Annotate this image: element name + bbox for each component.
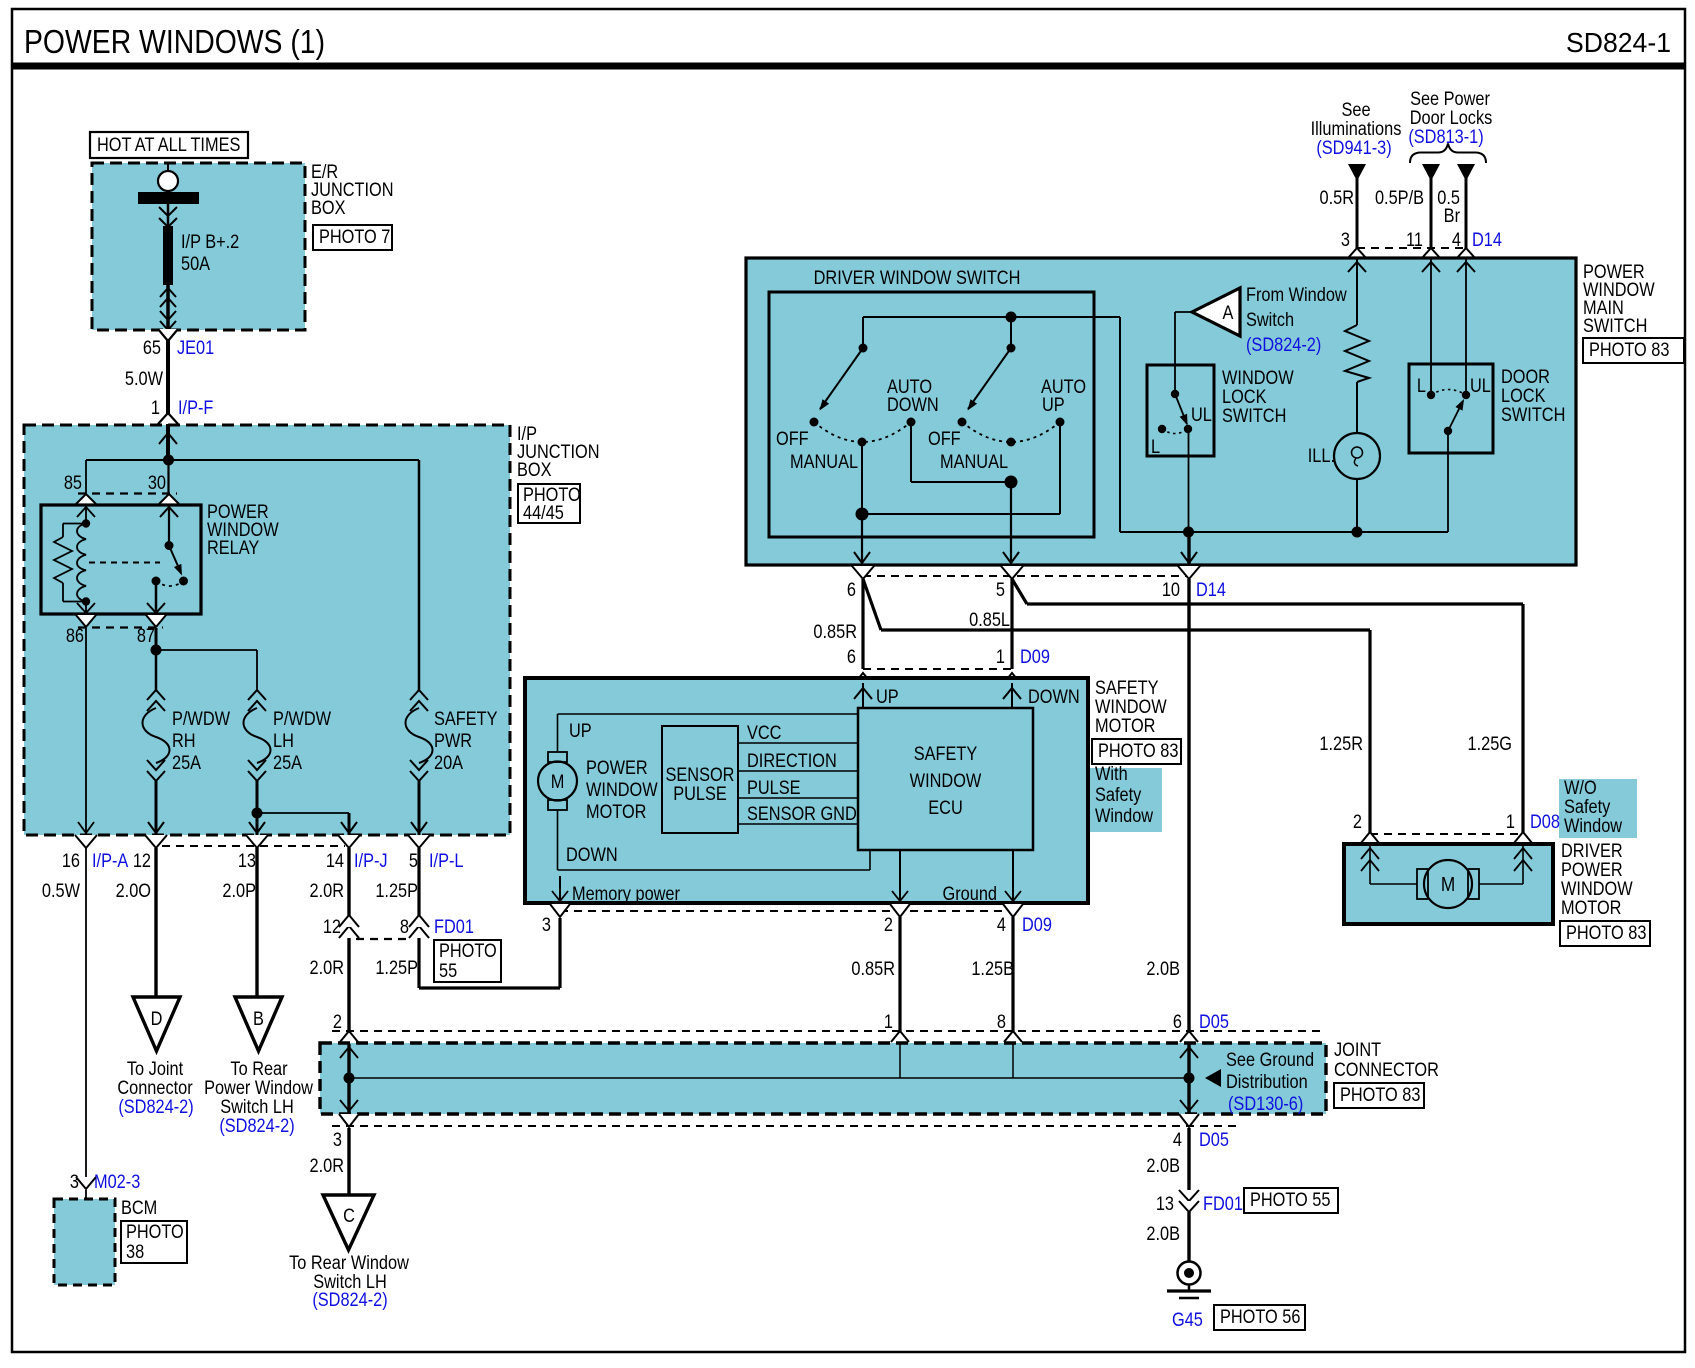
label PHOTO 83 joint connector (1334, 1083, 1424, 1108)
svg-text:2.0P: 2.0P (222, 880, 256, 901)
svg-text:BOX: BOX (311, 197, 346, 218)
svg-text:D: D (151, 1008, 163, 1029)
svg-text:DRIVER WINDOW SWITCH: DRIVER WINDOW SWITCH (814, 267, 1021, 288)
connector JE01 pin 65 (166, 330, 170, 425)
svg-text:(SD813-1): (SD813-1) (1408, 126, 1483, 147)
svg-text:JE01: JE01 (177, 337, 214, 358)
svg-text:30: 30 (148, 472, 166, 493)
svg-text:SWITCH: SWITCH (1501, 404, 1565, 425)
svg-text:13: 13 (238, 850, 256, 871)
svg-text:I/P-A: I/P-A (92, 850, 128, 871)
svg-text:25A: 25A (172, 752, 201, 773)
label PHOTO 55 (434, 940, 501, 982)
wire pin 10 exit (1187, 532, 1190, 565)
BCM box (54, 1199, 115, 1285)
left switch lever (820, 348, 863, 409)
svg-text:Br: Br (1444, 205, 1460, 226)
svg-text:D05: D05 (1199, 1129, 1229, 1150)
label PHOTO 38 (121, 1221, 187, 1263)
fusible link symbol (158, 171, 178, 191)
node window lock junction (1183, 527, 1194, 538)
relay contact 87 node (152, 577, 161, 586)
wire fuse to pin 65 (166, 285, 170, 333)
wire ECU ground pin 4 (1012, 850, 1014, 902)
svg-text:I/P-F: I/P-F (178, 397, 214, 418)
right switch AUTO UP contact (1056, 418, 1065, 427)
svg-text:DOWN: DOWN (566, 844, 618, 865)
joint entry arrows (347, 1044, 350, 1078)
right switch OFF contact (958, 418, 967, 427)
svg-text:HOT AT ALL TIMES: HOT AT ALL TIMES (97, 134, 240, 155)
svg-text:RELAY: RELAY (207, 537, 259, 558)
svg-text:OFF: OFF (776, 428, 809, 449)
svg-text:ILL.: ILL. (1308, 445, 1335, 466)
wire A to window lock switch (1175, 311, 1192, 313)
label PHOTO 44/45 (518, 484, 580, 523)
svg-text:1.25R: 1.25R (1319, 733, 1363, 754)
label PHOTO 83 safety motor (1092, 739, 1181, 764)
main switch entry arrows (1356, 258, 1358, 325)
window lock switch box (1147, 365, 1214, 456)
connector row D14 pins 3 11 4 (1357, 247, 1466, 249)
svg-text:(SD824-2): (SD824-2) (219, 1115, 294, 1136)
svg-text:1: 1 (151, 397, 160, 418)
svg-text:2: 2 (884, 914, 893, 935)
relay coil (77, 524, 86, 602)
svg-text:P/WDW: P/WDW (172, 708, 230, 729)
svg-text:2.0B: 2.0B (1146, 1223, 1180, 1244)
wire relay 87 to pin (155, 581, 158, 614)
svg-text:UP: UP (876, 686, 899, 707)
safety box entry UP (862, 683, 864, 708)
svg-text:WINDOW: WINDOW (586, 779, 658, 800)
svg-text:Window: Window (1564, 815, 1622, 836)
svg-text:3: 3 (333, 1129, 342, 1150)
wire pin 5 exit (1010, 482, 1012, 565)
svg-text:UL: UL (1470, 375, 1491, 396)
relay pin 86 exit (85, 602, 87, 615)
wire safety pwr feed (418, 460, 421, 690)
svg-text:38: 38 (126, 1241, 144, 1262)
svg-text:Memory power: Memory power (572, 883, 680, 904)
wire 0.5Br (1457, 164, 1475, 181)
svg-text:I/P-L: I/P-L (429, 850, 464, 871)
svg-text:PHOTO: PHOTO (126, 1221, 184, 1242)
svg-text:POWER: POWER (586, 757, 648, 778)
svg-text:(SD941-3): (SD941-3) (1316, 137, 1391, 158)
relay coil bottom node (82, 597, 90, 605)
svg-text:8: 8 (400, 916, 409, 937)
fuse P/WDW RH 25A (147, 690, 165, 700)
switch feed bus (863, 316, 1120, 318)
svg-text:1.25B: 1.25B (971, 958, 1014, 979)
svg-text:PHOTO 7: PHOTO 7 (319, 226, 390, 247)
wire battery feed (167, 163, 169, 192)
svg-text:M: M (1441, 873, 1455, 896)
connector row D09 pins 3 2 4 (560, 910, 1013, 912)
svg-text:MOTOR: MOTOR (586, 801, 646, 822)
relay actuation dashed link (89, 562, 160, 564)
label W/O Safety Window (1559, 779, 1637, 838)
svg-text:1: 1 (996, 646, 1005, 667)
svg-text:DIRECTION: DIRECTION (747, 750, 837, 771)
I/P box exit arrows (78, 822, 94, 833)
driver power window motor box (1344, 844, 1553, 924)
svg-text:P/WDW: P/WDW (273, 708, 331, 729)
connector row D09 pins 6 1 (863, 668, 1012, 670)
brace over door lock wires (1410, 144, 1486, 164)
wire 2.0R (347, 848, 350, 1031)
svg-text:2.0B: 2.0B (1146, 958, 1180, 979)
left switch AUTO DOWN contact (907, 418, 916, 427)
svg-text:2: 2 (333, 1011, 342, 1032)
ground bus in main switch (1119, 317, 1121, 532)
wire auto-down to manual-up link (910, 422, 912, 482)
wire branch to 1.25R (863, 579, 881, 630)
wire to relay pin 30 (167, 460, 169, 494)
svg-text:44/45: 44/45 (523, 502, 564, 523)
svg-text:4: 4 (997, 914, 1006, 935)
wire I/P-F into box (166, 425, 170, 460)
connector row D05 pins 2 1 8 6 (332, 1030, 1322, 1032)
window lock switch contacts (1171, 390, 1179, 398)
svg-text:M: M (551, 771, 565, 792)
svg-text:10: 10 (1162, 579, 1180, 600)
svg-text:50A: 50A (181, 253, 210, 274)
left switch arc (814, 422, 911, 442)
node LH branch (252, 808, 263, 819)
connector row D05 pins 3 4 (339, 1114, 359, 1127)
svg-text:(SD824-2): (SD824-2) (1246, 334, 1321, 355)
wire pin 6 exit (861, 514, 863, 565)
svg-text:1.25P: 1.25P (375, 957, 418, 978)
safety box entry DOWN (1011, 683, 1013, 708)
svg-text:A: A (1223, 302, 1234, 323)
label PHOTO 83 main switch (1583, 338, 1684, 363)
svg-text:DOWN: DOWN (887, 394, 939, 415)
connector row I/P-A I/P-J I/P-L (75, 835, 97, 848)
wire 2.0R to triangle C (347, 1128, 350, 1195)
power window motor M (548, 752, 567, 762)
resistor ILL (1345, 325, 1369, 382)
connector FD01 pins 12 8 (339, 926, 359, 938)
svg-text:PHOTO: PHOTO (439, 940, 497, 961)
label PHOTO 56 (1214, 1305, 1305, 1330)
wire memory power stub (559, 876, 561, 902)
connector row D08 pins 2 1 (1370, 833, 1523, 835)
wire 2.0B lower (1187, 1212, 1190, 1261)
wire pin 87 down (155, 628, 158, 650)
svg-text:5.0W: 5.0W (125, 368, 163, 389)
svg-text:0.85R: 0.85R (851, 958, 895, 979)
svg-text:3: 3 (1341, 229, 1350, 250)
title divider bar (12, 63, 1685, 70)
svg-text:RH: RH (172, 730, 196, 751)
triangle connector C (323, 1195, 374, 1250)
wire SENSOR GND (738, 823, 858, 825)
fuse P/WDW LH 25A (248, 690, 266, 700)
svg-text:65: 65 (143, 337, 161, 358)
lamp ILL (1334, 433, 1380, 479)
wire 87 branch to LH fuse (156, 649, 257, 651)
wire LH fuse to pin 13 (256, 781, 259, 835)
svg-text:D09: D09 (1022, 914, 1052, 935)
svg-text:1: 1 (1506, 811, 1515, 832)
wire PULSE (738, 797, 858, 799)
svg-text:5: 5 (409, 850, 418, 871)
wire 0.85L (1010, 579, 1013, 669)
svg-text:UL: UL (1191, 404, 1212, 425)
triangle connector D (133, 997, 180, 1051)
relay pin 87 exit arrow (147, 603, 165, 613)
svg-text:1: 1 (884, 1011, 893, 1032)
svg-text:BCM: BCM (121, 1197, 157, 1218)
wire door lock to ground bus (1447, 431, 1449, 532)
wire window lock to ground bus (1188, 429, 1190, 532)
svg-text:LH: LH (273, 730, 294, 751)
ground G45 (1178, 1262, 1201, 1285)
svg-text:ECU: ECU (928, 797, 962, 818)
relay pin 30 entry arrow (168, 505, 170, 546)
svg-text:SAFETY: SAFETY (434, 708, 498, 729)
svg-text:Window: Window (1095, 805, 1153, 826)
svg-text:D08: D08 (1530, 811, 1560, 832)
wire motor DOWN loop (557, 810, 559, 870)
svg-text:87: 87 (137, 625, 155, 646)
svg-text:PHOTO 83: PHOTO 83 (1566, 922, 1647, 943)
svg-text:(SD824-2): (SD824-2) (118, 1096, 193, 1117)
right switch top contact (1007, 344, 1016, 353)
svg-text:SD824-1: SD824-1 (1566, 26, 1671, 58)
svg-text:6: 6 (847, 579, 856, 600)
svg-text:With: With (1095, 763, 1128, 784)
svg-text:PHOTO 83: PHOTO 83 (1589, 339, 1670, 360)
svg-text:20A: 20A (434, 752, 463, 773)
svg-text:1.25G: 1.25G (1468, 733, 1512, 754)
svg-text:SAFETY: SAFETY (914, 743, 978, 764)
wire fusible link to fuse (167, 204, 170, 226)
wire 87 to RH fuse (155, 650, 158, 690)
svg-text:I/P-J: I/P-J (354, 850, 388, 871)
svg-text:0.5R: 0.5R (1320, 187, 1354, 208)
wire 0.85R to joint (898, 917, 901, 1044)
fuse I/P B+.2 50A (163, 226, 173, 285)
wire 2.0B from pin 10 (1187, 579, 1190, 1044)
svg-text:3: 3 (70, 1171, 79, 1192)
svg-text:2.0R: 2.0R (310, 1155, 344, 1176)
relay coil top node (82, 519, 90, 527)
wire manual to auto-up link (861, 442, 863, 514)
door lock switch box (1409, 364, 1493, 453)
label HOT AT ALL TIMES (90, 132, 248, 158)
svg-text:MANUAL: MANUAL (790, 451, 858, 472)
svg-text:VCC: VCC (747, 722, 782, 743)
svg-text:I/P B+.2: I/P B+.2 (181, 231, 239, 252)
node main feed junction (163, 455, 174, 466)
right switch arc (962, 422, 1060, 442)
svg-text:13: 13 (1156, 1193, 1174, 1214)
label PHOTO 7 (313, 225, 392, 250)
svg-text:(SD824-2): (SD824-2) (312, 1289, 387, 1310)
wire ECU ground pin 2 (899, 850, 901, 902)
relay switch contact node (179, 577, 188, 586)
svg-text:5: 5 (996, 579, 1005, 600)
svg-text:D14: D14 (1472, 229, 1502, 250)
svg-text:FD01: FD01 (434, 916, 474, 937)
left switch OFF contact (810, 418, 819, 427)
svg-text:4: 4 (1452, 229, 1461, 250)
svg-text:B: B (253, 1008, 264, 1029)
label PHOTO 83 driver motor (1560, 921, 1650, 946)
svg-text:Switch: Switch (1246, 309, 1294, 330)
triangle connector A from window switch (1192, 288, 1240, 336)
svg-text:PHOTO 55: PHOTO 55 (1250, 1189, 1331, 1210)
relay switch arc (156, 581, 184, 586)
svg-text:PULSE: PULSE (747, 777, 801, 798)
right switch MANUAL contact (1007, 438, 1016, 447)
svg-text:OFF: OFF (928, 428, 961, 449)
svg-text:D05: D05 (1199, 1011, 1229, 1032)
motor M driver (1370, 883, 1417, 885)
svg-text:Safety: Safety (1095, 784, 1141, 805)
svg-text:11: 11 (1406, 229, 1423, 250)
relay switch common node (165, 541, 174, 550)
safety window ECU box (858, 708, 1033, 850)
svg-text:8: 8 (997, 1011, 1006, 1032)
wire DIRECTION (738, 770, 858, 772)
svg-text:2.0R: 2.0R (310, 957, 344, 978)
triangle connector B (235, 997, 282, 1051)
svg-text:PHOTO 83: PHOTO 83 (1098, 740, 1179, 761)
joint connector box (320, 1043, 1326, 1114)
svg-text:86: 86 (66, 625, 84, 646)
relay switch lever (169, 546, 181, 574)
svg-text:G45: G45 (1172, 1309, 1203, 1330)
svg-text:D14: D14 (1196, 579, 1226, 600)
wire VCC (738, 742, 858, 744)
svg-text:(SD130-6): (SD130-6) (1228, 1093, 1303, 1114)
svg-text:JOINT: JOINT (1334, 1039, 1381, 1060)
svg-text:0.85R: 0.85R (813, 621, 857, 642)
svg-text:UP: UP (569, 720, 592, 741)
svg-text:D09: D09 (1020, 646, 1050, 667)
power window main switch box (746, 258, 1576, 565)
svg-text:2.0B: 2.0B (1146, 1155, 1180, 1176)
wire 1.25P (417, 848, 420, 988)
svg-text:PWR: PWR (434, 730, 472, 751)
wire safety fuse to pin 5 (418, 781, 421, 835)
left switch top contact (859, 344, 868, 353)
svg-text:2.0R: 2.0R (310, 880, 344, 901)
svg-text:L: L (1151, 436, 1160, 457)
svg-text:3: 3 (542, 914, 551, 935)
wire pin 86 down (85, 628, 87, 835)
svg-text:2: 2 (1353, 811, 1362, 832)
svg-text:SWITCH: SWITCH (1222, 405, 1286, 426)
wire RH fuse to pin 12 (155, 781, 158, 835)
svg-text:0.5W: 0.5W (42, 880, 80, 901)
node 87 branch (151, 645, 162, 656)
joint ground bus (349, 1077, 1189, 1079)
svg-text:C: C (343, 1205, 355, 1226)
svg-text:MOTOR: MOTOR (1561, 897, 1621, 918)
svg-text:CONNECTOR: CONNECTOR (1334, 1059, 1439, 1080)
E/R junction box (92, 163, 305, 330)
wire branch to 1.25G (1012, 579, 1027, 604)
svg-text:2.0O: 2.0O (116, 880, 151, 901)
wire 0.5P/B (1422, 164, 1440, 181)
svg-text:POWER WINDOWS (1): POWER WINDOWS (1) (24, 23, 325, 61)
wire 0.5W (85, 848, 87, 1177)
svg-text:1.25P: 1.25P (375, 880, 418, 901)
I/P junction box (24, 425, 510, 835)
svg-text:SWITCH: SWITCH (1583, 315, 1647, 336)
wire feed bus (86, 459, 419, 461)
svg-text:0.5P/B: 0.5P/B (1375, 187, 1424, 208)
wire 2.0O (154, 848, 157, 997)
wire LH branch to pin 14 (257, 812, 349, 814)
svg-text:Distribution: Distribution (1226, 1071, 1308, 1092)
svg-text:WINDOW: WINDOW (910, 770, 982, 791)
label PHOTO 55 lower (1244, 1188, 1338, 1213)
svg-text:MANUAL: MANUAL (940, 451, 1008, 472)
svg-text:MOTOR: MOTOR (1095, 715, 1155, 736)
right switch lever (968, 348, 1011, 409)
wire 1.25B to joint (1011, 917, 1014, 1044)
driver window switch inner box (769, 292, 1094, 537)
svg-text:BOX: BOX (517, 459, 552, 480)
wire 0.5R (1348, 164, 1366, 181)
svg-text:Ground: Ground (943, 883, 997, 904)
svg-text:55: 55 (439, 960, 457, 981)
svg-text:25A: 25A (273, 752, 302, 773)
node right switch junction (1005, 476, 1018, 489)
relay resistor (63, 523, 86, 525)
wire 2.0B to ground (1187, 1128, 1190, 1190)
svg-text:M02-3: M02-3 (94, 1171, 140, 1192)
fuse SAFETY PWR 20A (410, 690, 428, 700)
svg-text:12: 12 (133, 850, 151, 871)
svg-text:14: 14 (326, 850, 344, 871)
connector row pins 86 87 (76, 615, 96, 627)
svg-text:DOWN: DOWN (1028, 686, 1080, 707)
node bus to auto-up switch (1006, 312, 1017, 323)
svg-text:12: 12 (323, 916, 341, 937)
node lamp junction (1352, 527, 1363, 538)
svg-text:UP: UP (1042, 394, 1065, 415)
svg-text:FD01: FD01 (1203, 1193, 1243, 1214)
svg-text:L: L (1417, 375, 1426, 396)
wire 1.25P to memory power (419, 986, 560, 989)
svg-text:SENSOR GND: SENSOR GND (747, 803, 857, 824)
svg-text:6: 6 (1173, 1011, 1182, 1032)
wire 0.85R (861, 579, 864, 669)
connector row D14 pins 6 5 10 (863, 575, 1188, 577)
wire 2.0P (255, 848, 258, 997)
svg-text:16: 16 (62, 850, 80, 871)
joint exit arrows (347, 1078, 350, 1114)
see ground distribution reference (1205, 1069, 1221, 1087)
svg-text:PULSE: PULSE (673, 783, 727, 804)
svg-text:See Ground: See Ground (1226, 1049, 1314, 1070)
label With Safety Window (1090, 768, 1162, 832)
left switch MANUAL contact (858, 438, 867, 447)
svg-text:From Window: From Window (1246, 284, 1347, 305)
safety window motor box (525, 678, 1088, 903)
svg-text:6: 6 (847, 646, 856, 667)
sensor pulse box (662, 726, 738, 833)
driver motor entry arrows (1369, 844, 1371, 884)
